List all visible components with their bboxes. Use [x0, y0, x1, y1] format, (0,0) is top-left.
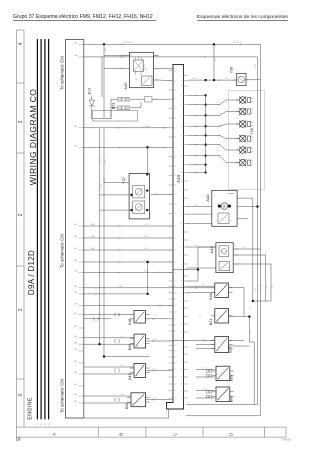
wire sensor row mid [84, 305, 173, 307]
svg-text:2: 2 [231, 194, 232, 196]
header underline left [13, 20, 156, 22]
svg-text:12: 12 [175, 351, 177, 353]
svg-text:8: 8 [181, 301, 182, 303]
harness bus end labels [37, 423, 50, 425]
svg-text:8: 8 [181, 316, 182, 318]
inline connector pairs [94, 313, 120, 402]
wire A44 left c [186, 223, 212, 225]
relay K12 symbol [89, 96, 95, 107]
wire B39 left b [84, 343, 134, 345]
A43 right pin ticks [236, 248, 238, 265]
svg-text:8: 8 [181, 293, 182, 295]
injector feed bus vertical [205, 95, 207, 173]
wire Y39 feed [188, 79, 234, 81]
svg-text:12: 12 [175, 156, 177, 158]
svg-text:8: 8 [181, 398, 182, 400]
wire right bus link [253, 300, 266, 302]
sensor B38 [215, 283, 229, 297]
svg-text:8: 8 [181, 181, 182, 183]
solenoid valve Y39 [237, 74, 247, 86]
wire B10 left a [84, 366, 134, 368]
svg-text:12: 12 [175, 213, 177, 215]
wire B21 feed [84, 318, 111, 320]
svg-text:8: 8 [181, 172, 182, 174]
wire R21 feed [101, 57, 103, 97]
sensor B54 [131, 393, 146, 407]
svg-text:12: 12 [175, 345, 177, 347]
EECU connector strip A14 [167, 64, 184, 409]
B04 pins [206, 390, 234, 398]
injector Y33-4 [236, 135, 246, 142]
junction Y39 drop [213, 79, 215, 81]
svg-text:8: 8 [181, 80, 182, 82]
svg-text:2: 2 [244, 72, 245, 74]
injector Y33-5 pin block [248, 147, 253, 152]
wire B38 long feed [84, 287, 215, 289]
svg-text:12: 12 [175, 80, 177, 82]
svg-text:12: 12 [175, 369, 177, 371]
A43 sensor element [219, 246, 229, 256]
svg-text:1: 1 [238, 72, 239, 74]
wire junction drop [147, 262, 149, 294]
A45 contact element [142, 76, 153, 86]
svg-text:8: 8 [181, 286, 182, 288]
junction feed chain [146, 261, 148, 263]
wire R21 to EECU [158, 98, 173, 100]
wire A44 right c [237, 218, 248, 220]
svg-text:8: 8 [181, 240, 182, 242]
wire B10 right [146, 369, 174, 371]
wire A44 feed left [186, 206, 212, 208]
bus box pin marks [74, 42, 84, 404]
svg-text:8: 8 [181, 281, 182, 283]
sensor B21 [215, 309, 229, 323]
wire ground junction link [173, 270, 198, 281]
A44 top pin marks [228, 194, 234, 197]
wire K12 coil link [92, 108, 112, 119]
wire bus to EECU row2 [84, 146, 173, 148]
svg-text:12: 12 [175, 128, 177, 130]
svg-text:8: 8 [181, 276, 182, 278]
wire bus to EECU row3 [84, 225, 173, 227]
B37 pins [211, 341, 233, 349]
wire B37 right b [229, 345, 250, 347]
svg-text:3: 3 [18, 120, 24, 123]
wire A43 right c [233, 264, 271, 301]
svg-text:M: M [223, 205, 227, 208]
injector Y33-4 pin block [248, 136, 253, 141]
junction supply A end [98, 343, 100, 345]
sensor B37 [215, 337, 229, 353]
B10 pins [130, 368, 150, 373]
svg-text:1: 1 [252, 121, 253, 123]
wire B38 left pins [186, 285, 215, 287]
B38 pins [211, 288, 233, 293]
svg-text:31: 31 [48, 423, 50, 425]
svg-text:8: 8 [181, 165, 182, 167]
wire ignition feed [84, 57, 258, 405]
solenoid valve unit Y37 [129, 174, 149, 219]
wire K12 branch down [103, 44, 105, 118]
header underline right [197, 20, 288, 22]
wire S48 right [146, 318, 174, 320]
wire A44 right b [237, 206, 257, 208]
svg-text:2: 2 [18, 213, 24, 216]
svg-text:18: 18 [16, 437, 21, 442]
A44 motor symbol [218, 203, 231, 210]
svg-text:12: 12 [175, 312, 177, 314]
svg-text:8: 8 [181, 377, 182, 379]
svg-text:12: 12 [175, 185, 177, 187]
wire battery feed and return [84, 44, 260, 416]
svg-text:12: 12 [175, 377, 177, 379]
junction A44 right [252, 300, 254, 302]
svg-text:B39: B39 [128, 344, 132, 350]
svg-text:12: 12 [175, 325, 177, 327]
svg-text:8: 8 [181, 332, 182, 334]
wire spare mid [104, 356, 150, 358]
wire B54 left b [84, 402, 131, 404]
wire bus to EECU row5 [84, 249, 173, 251]
wire Y37 right return [151, 193, 173, 195]
wire A45 row2 left [104, 68, 125, 70]
wire B54 right [146, 399, 173, 401]
svg-text:12: 12 [175, 90, 177, 92]
svg-text:To schematic CM: To schematic CM [60, 56, 65, 90]
wire B21 bus down [249, 317, 254, 405]
junction Y37 feed [146, 146, 148, 148]
wire bus to EECU row6 [84, 261, 173, 263]
wire Y39 feed drop [213, 44, 215, 80]
connector strip rectangle [93, 111, 138, 122]
svg-text:12: 12 [175, 357, 177, 359]
svg-text:12: 12 [175, 137, 177, 139]
wire bus to EECU row1 [84, 127, 173, 129]
injector Y33-3 [236, 121, 246, 128]
wire B39 left a [84, 337, 134, 339]
svg-text:12: 12 [175, 118, 177, 120]
wire B38 right a [229, 288, 244, 317]
A14 right pin row [181, 75, 188, 400]
svg-text:12: 12 [175, 390, 177, 392]
svg-text:8: 8 [181, 340, 182, 342]
svg-text:12: 12 [175, 331, 177, 333]
connector block X on R21 output [145, 97, 153, 102]
svg-text:12: 12 [175, 286, 177, 288]
sensor B10 [134, 363, 146, 377]
svg-text:Y39: Y39 [230, 67, 234, 74]
svg-text:12: 12 [175, 281, 177, 283]
svg-text:12: 12 [175, 238, 177, 240]
junction top wire at K12 drop [103, 43, 105, 45]
svg-text:12: 12 [175, 363, 177, 365]
wire A43 left b [186, 267, 216, 269]
svg-text:12: 12 [175, 272, 177, 274]
Y37 valve 2 [133, 201, 145, 213]
svg-text:A43: A43 [209, 246, 214, 254]
wire sensor supply vertical B [103, 128, 105, 356]
B21 pins [211, 315, 233, 317]
injector Y33-6 [236, 159, 246, 166]
wire B21 right [229, 316, 250, 318]
control unit A43 [216, 243, 233, 273]
wires bus to injectors [206, 100, 239, 163]
A45 internal marks [135, 64, 148, 81]
wire A45 to EECU a [159, 68, 174, 70]
wire A43 right b [233, 255, 266, 301]
svg-text:B38: B38 [209, 293, 213, 299]
A43 switch element [219, 261, 230, 270]
drawing border letter band [17, 427, 286, 437]
svg-text:WIRING DIAGRAM CO: WIRING DIAGRAM CO [28, 89, 38, 186]
svg-text:B37: B37 [228, 346, 232, 352]
R21 row wires [111, 99, 145, 118]
A45 pin stubs [121, 55, 159, 81]
wire A44 right a [237, 198, 253, 301]
svg-text:A17B 1.0: A17B 1.0 [233, 41, 242, 44]
svg-text:12: 12 [175, 166, 177, 168]
junction supply B end [103, 355, 105, 357]
svg-text:12: 12 [175, 305, 177, 307]
wire id labels [91, 41, 274, 400]
svg-text:Y33: Y33 [250, 128, 254, 135]
wire tick marks [95, 44, 241, 401]
A45 coil element [134, 60, 144, 72]
relay box A45 [130, 52, 154, 87]
svg-text:8: 8 [181, 247, 182, 249]
svg-text:B: B [119, 433, 124, 436]
wire Y37 left feeds [100, 178, 130, 210]
svg-text:0: 0 [18, 393, 24, 396]
junction B21 bus [248, 315, 250, 317]
wire Y39 return stub [249, 79, 261, 81]
svg-text:12: 12 [175, 175, 177, 177]
injector Y33-6 pin block [248, 160, 253, 165]
A14 left pin row [169, 70, 177, 399]
svg-text:4: 4 [18, 42, 24, 45]
svg-text:8: 8 [181, 86, 182, 88]
wire B54 left a [84, 395, 131, 397]
wire B39 right [146, 340, 174, 342]
wire B10 left b [84, 373, 134, 375]
svg-text:V37B: V37B [101, 183, 103, 189]
svg-text:8: 8 [181, 126, 182, 128]
svg-text:31: 31 [45, 423, 47, 425]
svg-text:K12: K12 [88, 88, 92, 95]
svg-text:8: 8 [181, 155, 182, 157]
svg-text:8: 8 [181, 115, 182, 117]
svg-text:8: 8 [181, 255, 182, 257]
wire A45 top to bus [104, 55, 125, 57]
wire Y37 feed down [147, 147, 149, 173]
svg-text:8: 8 [181, 198, 182, 200]
Y39 pin ticks [234, 72, 249, 81]
svg-text:A45: A45 [123, 82, 128, 90]
svg-text:8: 8 [181, 354, 182, 356]
svg-text:C: C [173, 433, 178, 436]
svg-text:B10: B10 [128, 373, 132, 379]
svg-text:1: 1 [252, 136, 253, 138]
wire A45 to EECU b [159, 79, 174, 82]
svg-text:12: 12 [175, 292, 177, 294]
B05 pins [206, 370, 234, 378]
injector Y33-3 pin block [248, 121, 253, 126]
injector Y33-1 pin block [248, 97, 253, 102]
injector Y33-1 [236, 97, 246, 104]
svg-text:A44: A44 [205, 194, 210, 202]
svg-text:12: 12 [175, 194, 177, 196]
svg-text:To schematic CM: To schematic CM [60, 234, 65, 268]
svg-text:8: 8 [181, 214, 182, 216]
sensor B39 [134, 334, 146, 348]
svg-text:12: 12 [175, 70, 177, 72]
drawing border zone strip [17, 30, 24, 437]
svg-text:31: 31 [37, 423, 39, 425]
svg-text:0.75GN: 0.75GN [143, 126, 150, 128]
svg-text:8: 8 [181, 232, 182, 234]
wire B37 left a [173, 340, 215, 342]
wire B05 left b [196, 376, 215, 378]
svg-text:1: 1 [252, 109, 253, 111]
svg-text:8: 8 [181, 190, 182, 192]
injector Y33-2 [236, 108, 246, 115]
wire B04 left b [196, 397, 215, 399]
svg-text:12: 12 [175, 250, 177, 252]
svg-text:R21: R21 [112, 103, 116, 110]
injector Y33-2 pin block [248, 109, 253, 114]
wire B37 right a [229, 340, 244, 342]
sensor S48 [134, 311, 146, 324]
svg-text:B54: B54 [125, 402, 129, 408]
svg-text:S48: S48 [128, 319, 132, 325]
S48 pins [130, 315, 150, 319]
svg-text:To schematic CM: To schematic CM [60, 379, 65, 413]
junction Y39 feed on bus [204, 79, 206, 81]
resistor pack R21 row1 [118, 97, 130, 101]
svg-text:A: A [52, 433, 57, 436]
svg-text:8: 8 [181, 135, 182, 137]
svg-text:12: 12 [175, 99, 177, 101]
wire junction down [198, 247, 216, 270]
wire bus to EECU row4 [84, 237, 173, 239]
svg-text:8: 8 [181, 269, 182, 271]
resistor pack R21 row2 [118, 106, 130, 110]
svg-text:1: 1 [18, 308, 24, 311]
svg-text:12: 12 [175, 384, 177, 386]
control unit A44 [212, 190, 237, 226]
svg-text:8: 8 [181, 104, 182, 106]
svg-text:12: 12 [175, 340, 177, 342]
main harness bus lines [37, 39, 48, 419]
junction A43 feed [197, 268, 199, 270]
B39 pins [130, 339, 150, 344]
wire ground return bottom [84, 409, 169, 418]
svg-text:1: 1 [252, 97, 253, 99]
svg-text:8: 8 [181, 264, 182, 266]
svg-text:A17A 1.0: A17A 1.0 [124, 41, 133, 44]
svg-text:8: 8 [181, 144, 182, 146]
svg-text:8: 8 [181, 369, 182, 371]
svg-text:ENGINE: ENGINE [28, 397, 34, 420]
svg-text:8: 8 [181, 223, 182, 225]
wire right bus link2 [266, 300, 271, 302]
A44 element box [218, 213, 229, 224]
wire B04 left a [196, 389, 215, 391]
svg-text:8: 8 [181, 75, 182, 77]
sensor B05 [216, 366, 230, 380]
sensor B04 [216, 387, 230, 401]
injector feed stubs from EECU [188, 95, 206, 174]
svg-text:12: 12 [175, 299, 177, 301]
wire A43 right a [233, 248, 260, 250]
bus box To schematic CM [66, 40, 84, 419]
svg-text:12: 12 [175, 398, 177, 400]
svg-text:30: 30 [135, 79, 137, 81]
wire bus to EECU row7 [84, 272, 173, 274]
svg-text:8: 8 [181, 362, 182, 364]
svg-text:12: 12 [175, 262, 177, 264]
svg-text:86: 86 [146, 69, 148, 71]
svg-text:D: D [229, 433, 234, 436]
wire S48 left [84, 314, 134, 316]
svg-text:8: 8 [181, 384, 182, 386]
svg-text:12: 12 [175, 147, 177, 149]
svg-text:12: 12 [175, 319, 177, 321]
svg-text:8: 8 [181, 95, 182, 97]
svg-text:2.5R: 2.5R [118, 286, 123, 288]
svg-text:8: 8 [181, 347, 182, 349]
B54 pins [127, 397, 150, 402]
svg-text:1: 1 [252, 147, 253, 149]
injector feed bus junctions [204, 94, 206, 174]
svg-text:Esquemas eléctricos de los com: Esquemas eléctricos de los componentes [197, 14, 289, 20]
wire B37 left c [196, 348, 215, 350]
wire B37 left b [196, 344, 215, 346]
wire sensor link [84, 293, 148, 295]
Y37 valve 1 [133, 186, 145, 198]
svg-text:8: 8 [181, 308, 182, 310]
svg-text:Grupo 37 Esquema eléctrico FM9: Grupo 37 Esquema eléctrico FM9, FM12, FH… [13, 14, 153, 20]
svg-text:12: 12 [175, 108, 177, 110]
injector group boundary [229, 91, 265, 190]
svg-text:8: 8 [181, 324, 182, 326]
wire A43 left a [186, 246, 216, 248]
svg-text:12: 12 [175, 226, 177, 228]
junction sensor link [146, 293, 148, 295]
svg-text:8: 8 [181, 206, 182, 208]
junction A44 ignition [256, 205, 258, 207]
wire B38 return [186, 292, 215, 294]
svg-text:31: 31 [41, 423, 43, 425]
svg-text:TX60058: TX60058 [281, 438, 291, 441]
junction top wire at Y39 drop [213, 43, 215, 45]
wire sensor supply vertical A [99, 128, 101, 344]
svg-text:B21: B21 [209, 319, 213, 325]
svg-text:1: 1 [252, 160, 253, 162]
svg-text:8: 8 [181, 391, 182, 393]
svg-text:12: 12 [175, 204, 177, 206]
injector Y33-5 [236, 147, 246, 154]
Y37 terminal dots [130, 173, 148, 211]
svg-text:D9A / D12D: D9A / D12D [27, 250, 36, 295]
wire A44 left b [186, 213, 212, 215]
wire B05 left a [196, 368, 215, 370]
